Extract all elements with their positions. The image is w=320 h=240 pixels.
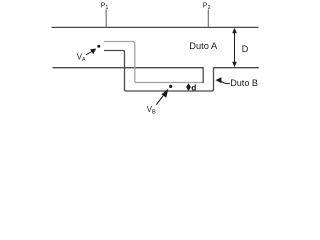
dimension d diamond xyxy=(186,83,191,91)
VA arrow shaft xyxy=(86,51,92,55)
duct B step vertical xyxy=(202,67,204,83)
svg-text:Duto B: Duto B xyxy=(230,78,258,88)
dimension D arrow shaft xyxy=(234,30,236,65)
svg-text:Duto A: Duto A xyxy=(189,41,218,51)
pressure tap P1 tick xyxy=(105,9,107,27)
VB arrowhead xyxy=(162,89,169,98)
pressure tap P2 tick xyxy=(207,9,209,27)
duct A bottom-left wall xyxy=(53,67,204,69)
duct B inner wall xyxy=(104,51,214,92)
Duto B pointer shaft xyxy=(221,81,231,84)
duct A top wall xyxy=(52,26,259,28)
VB arrow shaft xyxy=(156,95,163,104)
VB flow dot xyxy=(169,85,172,88)
svg-text:D: D xyxy=(242,44,249,54)
svg-text:d: d xyxy=(191,83,196,93)
VA stagnation dot xyxy=(97,45,100,48)
duct A bottom-right wall xyxy=(214,67,259,69)
duct B outer wall (gray S-path) xyxy=(104,42,203,83)
VA arrowhead xyxy=(90,49,96,55)
dimension D arrowhead down xyxy=(232,62,237,67)
Duto B pointer arrowhead xyxy=(216,77,222,83)
dimension D arrowhead up xyxy=(232,28,237,33)
